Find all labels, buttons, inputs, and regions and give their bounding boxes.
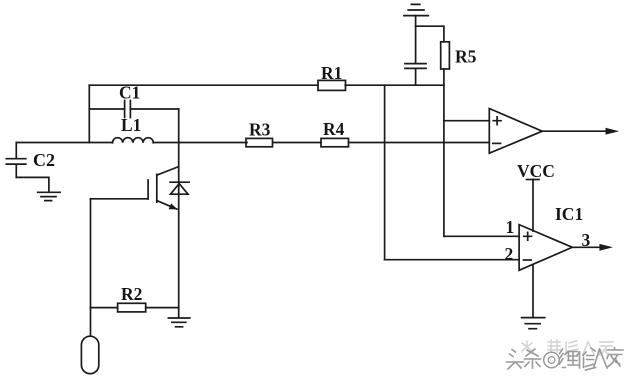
- ground top (inverted): [404, 4, 428, 15]
- ground below C2: [38, 192, 60, 200]
- wire output with arrow (top): [542, 128, 619, 135]
- wire pin2 horizontal: [385, 259, 519, 261]
- resistor R3: [246, 120, 273, 147]
- resistor R5: [441, 42, 477, 69]
- svg-text:C2: C2: [33, 150, 55, 170]
- wire IC1 output with arrow: [572, 244, 613, 251]
- op-amp U1 (top comparator): [489, 109, 542, 154]
- wire gate vertical down to R2 line: [90, 199, 92, 308]
- wire R4 to op-amp minus input: [349, 142, 490, 144]
- svg-text:2: 2: [505, 244, 514, 264]
- op-amp IC1: [519, 204, 583, 270]
- pin 1 label: [506, 217, 515, 237]
- wire R2 to emitter node: [146, 307, 179, 309]
- wire top loop horizontal: [89, 84, 318, 86]
- terminal capsule: [81, 308, 98, 374]
- svg-text:L1: L1: [121, 115, 141, 135]
- watermark text: [507, 348, 624, 371]
- svg-text:R4: R4: [323, 119, 345, 139]
- wire L1 to R3: [153, 142, 247, 144]
- svg-text:R3: R3: [249, 120, 271, 140]
- ground below IC1: [522, 318, 545, 329]
- VCC label: [517, 161, 555, 181]
- resistor R1: [318, 63, 346, 90]
- wire R3 to R4: [274, 142, 322, 144]
- wire node vertical down to pin2 corner: [384, 85, 386, 260]
- pin 3 label: [582, 230, 591, 250]
- wire IC1 bottom to ground: [532, 265, 534, 318]
- pin 2 label: [505, 244, 514, 264]
- svg-text:R5: R5: [455, 47, 477, 67]
- svg-text:R2: R2: [121, 284, 142, 304]
- wire main line left segment: [16, 142, 112, 144]
- svg-text:VCC: VCC: [517, 161, 555, 181]
- resistor R2: [91, 284, 146, 312]
- diode D1 across IGBT: [170, 182, 189, 194]
- VCC T-bar: [527, 179, 540, 181]
- svg-text:R1: R1: [321, 63, 342, 83]
- wire VCC stem: [532, 180, 534, 232]
- capacitor C1: [119, 83, 140, 118]
- wire ground stem down to capacitor: [415, 16, 417, 64]
- transistor Q1 (IGBT): [148, 167, 178, 210]
- wire capacitor to R1 line: [415, 68, 417, 85]
- svg-text:IC1: IC1: [555, 204, 583, 224]
- wire collector vertical (C1 branch down through main line to R2 line): [178, 109, 180, 308]
- svg-text:C1: C1: [119, 83, 140, 103]
- wire left vertical from top loop down to main line: [88, 85, 90, 142]
- wire R5 bottom down through node to pin1 corner: [443, 69, 445, 236]
- capacitor C3 (top filter): [405, 64, 426, 69]
- wire C2 to ground: [16, 177, 49, 192]
- watermark echo: [522, 340, 613, 355]
- wire pin1 horizontal: [444, 235, 519, 237]
- capacitor C2: [6, 143, 55, 178]
- resistor R4: [321, 119, 349, 147]
- wire R1 right to node: [345, 84, 444, 86]
- wire C1 right branch: [130, 108, 178, 110]
- wire plus input branch: [444, 120, 489, 122]
- wire C1 left branch: [89, 108, 124, 110]
- wire gate lead: [91, 198, 149, 200]
- wire branch to R5 top: [416, 26, 444, 42]
- ground at emitter: [168, 308, 189, 327]
- svg-text:1: 1: [506, 217, 515, 237]
- inductor L1: [113, 115, 154, 143]
